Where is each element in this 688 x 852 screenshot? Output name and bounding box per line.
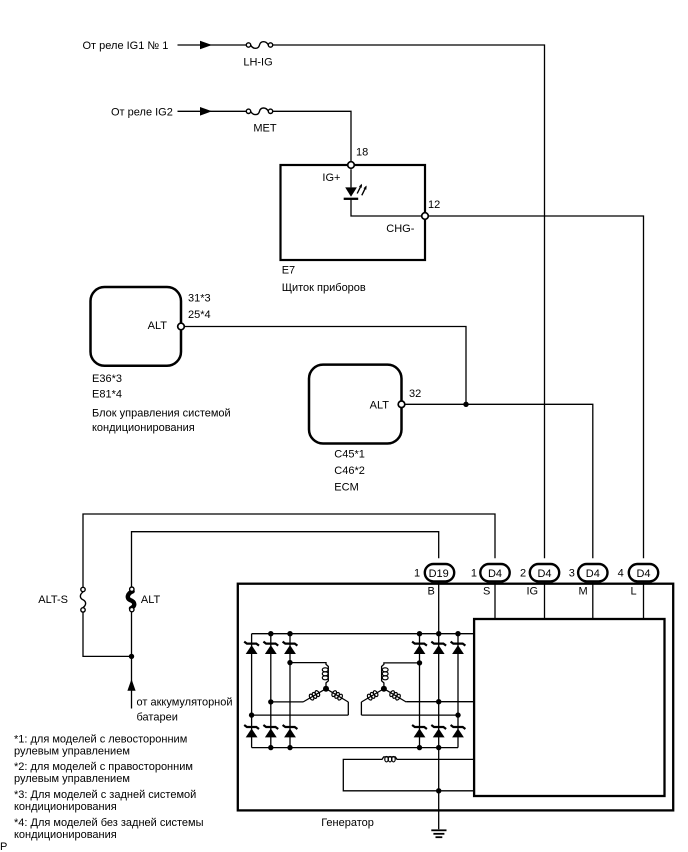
svg-text:LH-IG: LH-IG [243,57,272,69]
svg-text:31*3: 31*3 [188,293,211,305]
svg-text:IG+: IG+ [322,172,340,184]
svg-text:CHG-: CHG- [386,223,414,235]
svg-text:От реле IG1 № 1: От реле IG1 № 1 [83,40,169,52]
svg-text:D4: D4 [586,568,600,580]
svg-text:*3: Для моделей с задней систе: *3: Для моделей с задней системой [14,789,196,801]
svg-text:IG: IG [527,586,539,598]
svg-text:25*4: 25*4 [188,309,211,321]
svg-text:E36*3: E36*3 [92,373,122,385]
svg-text:от аккумуляторной: от аккумуляторной [137,697,233,709]
svg-text:C46*2: C46*2 [334,465,365,477]
svg-text:кондиционирования: кондиционирования [14,829,117,841]
svg-text:M: M [579,586,588,598]
svg-text:E7: E7 [282,264,295,276]
svg-text:3: 3 [569,568,575,580]
svg-text:S: S [483,586,490,598]
svg-text:1: 1 [471,568,477,580]
svg-text:D4: D4 [537,568,551,580]
svg-text:Блок управления системой: Блок управления системой [92,407,231,419]
svg-text:MET: MET [253,123,277,135]
svg-text:L: L [631,586,637,598]
svg-text:Щиток приборов: Щиток приборов [282,282,366,294]
svg-text:Генератор: Генератор [321,817,374,829]
svg-text:рулевым управлением: рулевым управлением [14,746,130,758]
svg-text:ALT: ALT [141,594,161,606]
svg-text:E81*4: E81*4 [92,389,122,401]
svg-text:кондиционирования: кондиционирования [92,422,195,434]
svg-text:1: 1 [414,568,420,580]
svg-text:ALT: ALT [370,400,390,412]
svg-text:2: 2 [520,568,526,580]
svg-text:батареи: батареи [137,712,178,724]
svg-text:C45*1: C45*1 [334,449,365,461]
svg-text:*1: для моделей с левосторонни: *1: для моделей с левосторонним [14,734,187,746]
svg-text:D19: D19 [429,568,449,580]
svg-text:*2: для моделей с правосторонн: *2: для моделей с правосторонним [14,761,193,773]
svg-text:кондиционирования: кондиционирования [14,801,117,813]
svg-text:ECM: ECM [334,482,358,494]
svg-text:От реле IG2: От реле IG2 [111,106,173,118]
svg-text:ALT-S: ALT-S [38,594,68,606]
svg-text:D4: D4 [488,568,502,580]
svg-text:Р: Р [0,841,7,852]
svg-text:*4: Для моделей без задней сис: *4: Для моделей без задней системы [14,817,204,829]
svg-text:18: 18 [356,147,368,159]
svg-text:12: 12 [428,199,440,211]
svg-text:B: B [428,586,435,598]
svg-text:4: 4 [618,568,624,580]
svg-text:32: 32 [409,388,421,400]
svg-text:рулевым управлением: рулевым управлением [14,773,130,785]
svg-text:D4: D4 [636,568,650,580]
svg-text:ALT: ALT [148,320,168,332]
